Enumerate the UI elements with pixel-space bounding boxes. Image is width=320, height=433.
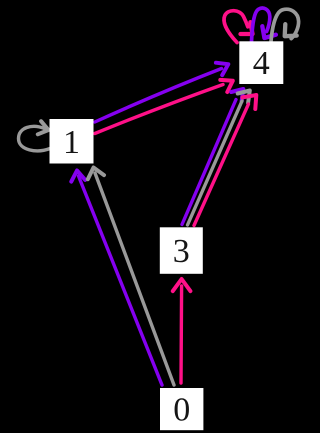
svg-text:4: 4 [253,45,270,82]
svg-text:1: 1 [63,124,80,161]
svg-text:3: 3 [173,233,190,270]
svg-text:0: 0 [173,392,190,429]
